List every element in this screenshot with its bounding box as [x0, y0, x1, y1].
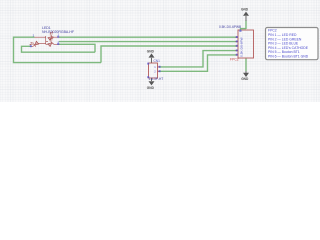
wire net cathode riser to FPC2 pin4	[101, 46, 237, 63]
svg-text:0.5K-DX-6PW: 0.5K-DX-6PW	[239, 37, 243, 57]
wire CN1 pin1 to FPC2 pin5	[159, 51, 237, 67]
ground GND above CN1	[147, 50, 155, 63]
ground GND top of FPC2	[241, 8, 249, 21]
svg-text:GND: GND	[241, 77, 249, 81]
connector FPC2	[236, 30, 254, 58]
ground GND below CN1	[147, 78, 155, 90]
svg-text:1: 1	[154, 65, 156, 69]
diode D-bottom-right	[46, 37, 55, 46]
wire outer loop LED pin3	[14, 37, 102, 62]
pin marker CN1 top	[147, 63, 149, 65]
svg-text:GND: GND	[147, 50, 155, 54]
lead bottom-left out	[31, 45, 34, 48]
pin marker FPC2 pin2	[236, 36, 238, 38]
connector CN1	[149, 63, 161, 78]
ground GND bottom of FPC2	[241, 71, 249, 81]
lead pin3	[35, 36, 46, 38]
wire LED bottom-right pin stub	[59, 44, 95, 52]
pin marker FPC2 pin3	[236, 40, 238, 42]
pin marker FPC2 pin5	[236, 49, 238, 51]
wire GND to FPC2 pin1 top	[245, 21, 247, 30]
diode D-top-right	[46, 31, 55, 40]
diode D-bottom-left	[29, 39, 38, 48]
wire inner loop LED bottom-left pin	[22, 46, 96, 52]
lead bottom-right cathode	[53, 43, 59, 44]
wire net LED pin1 to FPC2 pin2	[59, 36, 237, 38]
svg-text:2: 2	[154, 69, 156, 73]
wire pin1 L-bend	[241, 29, 247, 31]
pin marker LED pin1	[57, 36, 59, 38]
anode rail	[45, 36, 47, 44]
pin marker LED pin4	[57, 43, 59, 45]
pin marker CN1 pin2	[159, 70, 161, 72]
pin marker FPC2 pin1 top	[239, 30, 241, 32]
pin marker FPC2 pin4	[236, 45, 238, 47]
svg-text:FPC2: FPC2	[230, 57, 239, 61]
bridge to right diodes	[46, 41, 48, 43]
wire CN1 pin2 to FPC2 pin6	[159, 55, 237, 71]
wire FPC2 bottom to GND	[245, 59, 247, 72]
svg-text:GND: GND	[241, 8, 249, 12]
pin marker FPC2 pin6	[236, 54, 238, 56]
svg-text:PIN 6 — Bouton BT1 GND: PIN 6 — Bouton BT1 GND	[268, 55, 309, 59]
svg-text:GND: GND	[147, 86, 155, 90]
pin marker LED pin2	[30, 45, 32, 47]
pin marker CN1 bottom	[147, 76, 149, 78]
LED LED1	[29, 31, 59, 48]
note box FPC2 pinout	[266, 28, 319, 60]
svg-text:0.5K-DX-6PWB: 0.5K-DX-6PWB	[219, 25, 241, 29]
pin marker CN1 pin1	[159, 66, 161, 68]
wire net LED pin to FPC2 pin3	[59, 41, 237, 43]
lead top-right cathode	[53, 36, 59, 38]
bridge to left diode	[38, 42, 46, 44]
svg-text:1.5-3P-HT: 1.5-3P-HT	[149, 77, 164, 81]
